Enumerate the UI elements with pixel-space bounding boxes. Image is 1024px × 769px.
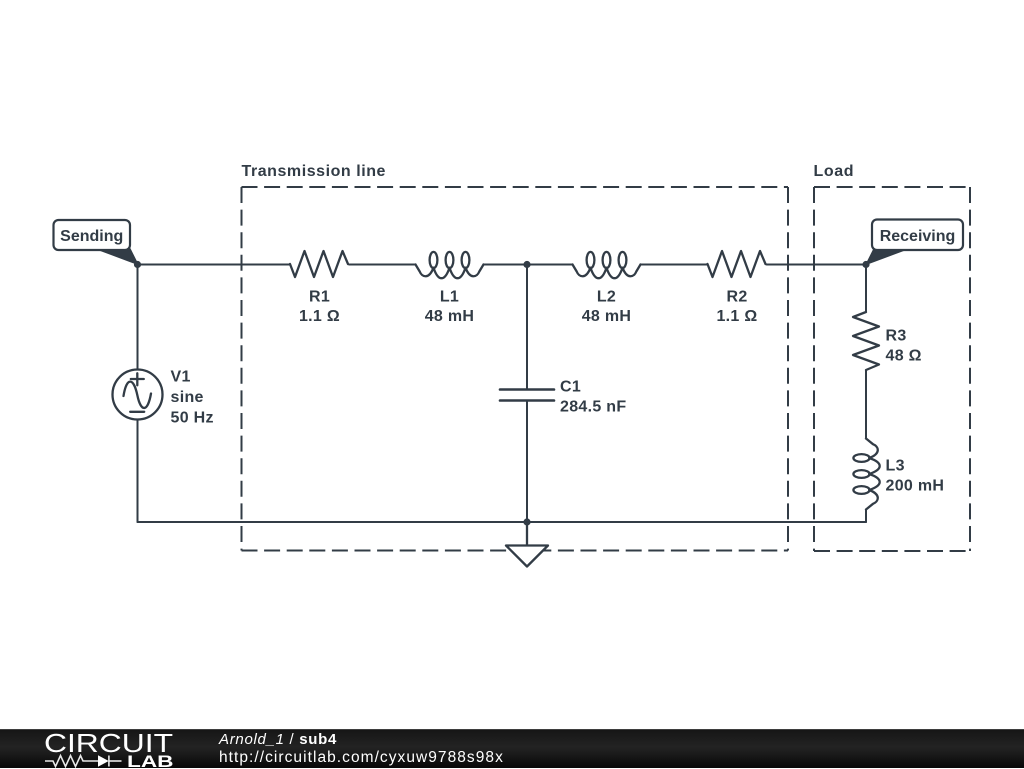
wire: R2 to Receiving node bbox=[767, 264, 867, 266]
box Transmission line bbox=[242, 187, 789, 551]
box Load bbox=[814, 187, 970, 551]
ground bbox=[506, 524, 548, 567]
svg-text:L3: L3 bbox=[886, 458, 905, 475]
svg-text:1.1 Ω: 1.1 Ω bbox=[299, 308, 340, 325]
wire: top rail from Sending node to R1 bbox=[138, 264, 291, 266]
capacitor C1 bbox=[500, 390, 554, 401]
wire: L2 to R2 bbox=[641, 264, 708, 266]
wire: Sending node down to V1 top bbox=[137, 265, 139, 369]
resistor R1 bbox=[290, 251, 348, 277]
svg-text:48 mH: 48 mH bbox=[582, 308, 632, 325]
svg-text:R3: R3 bbox=[886, 328, 907, 345]
wire: R1 to L1 bbox=[349, 264, 416, 266]
inductor L3 bbox=[853, 439, 879, 510]
svg-text:sine: sine bbox=[171, 389, 204, 406]
wire: center junction down to C1 top plate bbox=[526, 265, 528, 390]
svg-text:48 mH: 48 mH bbox=[425, 308, 475, 325]
svg-text:L2: L2 bbox=[597, 289, 616, 306]
node dot: center junction bbox=[523, 261, 530, 268]
inductor L1 bbox=[416, 252, 484, 278]
inductor L2 bbox=[573, 252, 641, 278]
node Receiving flag bbox=[866, 220, 963, 265]
wire: L3 to bottom rail bbox=[865, 510, 867, 523]
svg-text:V1: V1 bbox=[171, 369, 191, 386]
svg-text:C1: C1 bbox=[560, 379, 581, 396]
svg-text:L1: L1 bbox=[440, 289, 459, 306]
node dot: Receiving node bbox=[862, 261, 869, 268]
wire: V1 bottom down to bottom rail bbox=[137, 420, 139, 523]
resistor R3 bbox=[853, 312, 879, 370]
wire: bottom rail bbox=[138, 521, 867, 523]
svg-text:Receiving: Receiving bbox=[880, 228, 956, 245]
svg-text:R2: R2 bbox=[726, 289, 747, 306]
svg-text:284.5 nF: 284.5 nF bbox=[560, 399, 626, 416]
resistor R2 bbox=[708, 251, 766, 277]
wire: Receiving node down to R3 bbox=[865, 265, 867, 313]
node dot: bottom junction bbox=[523, 518, 530, 525]
svg-text:50 Hz: 50 Hz bbox=[171, 410, 214, 427]
wire: C1 bottom plate down to bottom rail bbox=[526, 401, 528, 523]
svg-text:Sending: Sending bbox=[60, 228, 123, 245]
wire: R3 to L3 bbox=[865, 370, 867, 439]
svg-text:Transmission line: Transmission line bbox=[242, 163, 387, 180]
svg-text:48 Ω: 48 Ω bbox=[886, 348, 922, 365]
svg-text:LAB: LAB bbox=[127, 753, 174, 769]
node dot: Sending node bbox=[134, 261, 141, 268]
footer title bbox=[219, 731, 504, 767]
svg-text:R1: R1 bbox=[309, 289, 330, 306]
footer bar bbox=[0, 729, 1024, 768]
voltage source V1 bbox=[113, 370, 163, 420]
svg-text:200 mH: 200 mH bbox=[886, 478, 945, 495]
wire: L1 to center junction bbox=[484, 264, 528, 266]
wire: center junction to L2 bbox=[527, 264, 573, 266]
node Sending flag bbox=[54, 220, 139, 265]
logo resistor-diode graphic bbox=[45, 756, 122, 767]
svg-text:1.1 Ω: 1.1 Ω bbox=[716, 308, 757, 325]
svg-text:Load: Load bbox=[814, 163, 855, 180]
